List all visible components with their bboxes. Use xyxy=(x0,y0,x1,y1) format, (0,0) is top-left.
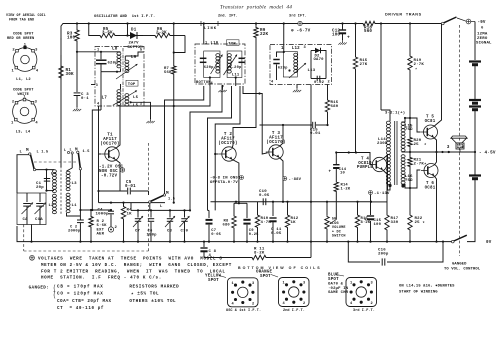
svg-text:1.5: 1.5 xyxy=(168,198,175,202)
svg-text:RED OR GREEN: RED OR GREEN xyxy=(7,37,34,41)
capacitor C12 xyxy=(332,22,350,40)
3rd IFT can box xyxy=(270,45,332,85)
svg-text:⊕ -6·7V: ⊕ -6·7V xyxy=(291,29,311,34)
gang capacitor C1A xyxy=(35,193,47,225)
wire can to T2 T3 feeds xyxy=(243,86,268,154)
svg-text:OTHERS ±10% TOL: OTHERS ±10% TOL xyxy=(129,299,176,304)
label L10 xyxy=(205,42,219,46)
svg-text:BOTTOM: BOTTOM xyxy=(128,46,144,50)
svg-text:1 L12: 1 L12 xyxy=(281,47,300,51)
svg-text:-·88V: -·88V xyxy=(289,178,302,182)
svg-text:2·7K★: 2·7K★ xyxy=(414,162,427,167)
wire C16 loop xyxy=(347,241,444,263)
svg-text:L1, L2: L1, L2 xyxy=(16,78,31,82)
coil base OSC 1st IFT xyxy=(228,278,259,307)
svg-text:OSCILLATOR AND 1st I.F.T.: OSCILLATOR AND 1st I.F.T. xyxy=(94,15,155,19)
coil L10 winding xyxy=(216,54,220,74)
svg-text:L13: L13 xyxy=(308,69,316,73)
dashed gang link switch upper xyxy=(148,143,150,193)
trimmer arrow L8 xyxy=(116,64,138,79)
text -6.7V xyxy=(291,29,311,34)
dashed gang link horizontal xyxy=(24,250,149,252)
wire AGC line xyxy=(260,124,328,126)
wire T1 base xyxy=(91,84,102,192)
svg-text:M: M xyxy=(75,148,78,153)
wire staircase c xyxy=(190,86,222,210)
label T3 AF117 xyxy=(266,131,285,145)
capacitor 620p osc xyxy=(95,51,118,72)
aerial coil L2 xyxy=(49,194,57,214)
label 2nd ift xyxy=(283,308,305,313)
wire battery bottom xyxy=(467,179,475,242)
trimmer C7 xyxy=(133,210,143,242)
svg-text:1.5: 1.5 xyxy=(83,150,90,154)
svg-text:3·2:1(+): 3·2:1(+) xyxy=(385,111,405,116)
switch on-off top xyxy=(442,17,457,25)
svg-text:C7: C7 xyxy=(135,230,141,234)
svg-text:230Ω: 230Ω xyxy=(377,141,388,146)
svg-text:75Ω: 75Ω xyxy=(405,178,413,183)
svg-text:OC81: OC81 xyxy=(425,120,436,124)
resistor R15 680 xyxy=(325,85,338,127)
trimmer arrow L13 xyxy=(288,63,315,78)
voltages note xyxy=(30,255,232,280)
svg-text:0-02: 0-02 xyxy=(314,81,325,85)
text -4.5V xyxy=(479,151,496,156)
wire staircase d xyxy=(208,86,232,210)
aerial coil view L3 L4 xyxy=(11,96,38,126)
label R2 ext aer xyxy=(97,220,108,237)
trimmer arrow L7 xyxy=(113,91,137,106)
svg-text:75Ω: 75Ω xyxy=(458,144,464,148)
wire T1 collector xyxy=(116,106,121,149)
label L12 xyxy=(281,47,300,51)
left tuned circuit rect 2nd IFT xyxy=(204,51,220,78)
capacitor 620p 3rd IFT xyxy=(273,51,288,80)
battery cell 2 xyxy=(469,100,481,103)
svg-text:DRIVER TRANS: DRIVER TRANS xyxy=(385,13,422,17)
svg-text:27K: 27K xyxy=(360,63,368,67)
label osc and 1st ift xyxy=(226,309,261,313)
diode D1 xyxy=(125,29,143,40)
wire T6 emitter xyxy=(434,176,437,243)
svg-text:COA= CTB= 20pf MAX: COA= CTB= 20pf MAX xyxy=(57,299,112,304)
switch on-off bottom xyxy=(452,235,492,245)
label 3rd IFT xyxy=(289,14,307,19)
svg-text:BOTTOM: BOTTOM xyxy=(196,81,211,85)
svg-text:2nd. IFT.: 2nd. IFT. xyxy=(218,14,238,19)
transistor T2 xyxy=(219,147,236,161)
wire top supply rail xyxy=(61,24,441,41)
label bottom 2nd IFT xyxy=(196,76,237,86)
svg-text:3: 3 xyxy=(371,282,373,286)
detector compartment xyxy=(311,51,326,79)
wire L3 tap xyxy=(67,213,81,216)
capacitor 0.02 xyxy=(311,76,326,85)
svg-text:100: 100 xyxy=(374,223,382,227)
capacitor C15 100 xyxy=(364,216,382,227)
svg-text:3: 3 xyxy=(303,282,305,286)
coil L9 xyxy=(125,52,144,73)
transistor T4 xyxy=(369,157,386,171)
wire C15 leg xyxy=(369,195,371,243)
resistor R16 xyxy=(355,202,371,243)
svg-text:CODE SPOT: CODE SPOT xyxy=(13,33,34,37)
test point T3 emitter xyxy=(283,177,302,183)
resistor R11 xyxy=(250,248,268,260)
dashed gang link to switch xyxy=(148,205,150,251)
capacitor 6-20p 2nd IFT xyxy=(229,58,245,70)
resistor R21 xyxy=(408,152,427,189)
svg-text:Transistor portable model 4: Transistor portable model 44 xyxy=(220,5,292,11)
svg-text:560: 560 xyxy=(364,30,372,34)
svg-text:3rd IFT.: 3rd IFT. xyxy=(289,14,307,19)
svg-text:L: L xyxy=(70,149,72,153)
svg-text:1000p: 1000p xyxy=(96,212,109,216)
svg-text:L5: L5 xyxy=(133,96,139,100)
svg-text:6-20p: 6-20p xyxy=(229,66,242,70)
svg-text:0·05: 0·05 xyxy=(211,233,221,237)
wire T3 emitter xyxy=(279,158,284,203)
svg-text:0-05: 0-05 xyxy=(271,232,282,236)
svg-text:22K: 22K xyxy=(260,32,269,37)
svg-text:56K: 56K xyxy=(164,71,172,75)
wire rail to transformer xyxy=(380,22,390,121)
coil base 3rd IFT xyxy=(346,278,377,307)
svg-text:L3: L3 xyxy=(72,182,78,186)
transistor T3 xyxy=(266,145,283,159)
capacitor C10 xyxy=(259,190,270,205)
wire gang to chassis xyxy=(30,225,32,243)
svg-text:NON OSC: NON OSC xyxy=(99,170,118,174)
svg-text:L2: L2 xyxy=(49,204,55,208)
ground under C3 xyxy=(73,106,81,111)
transistor T1 xyxy=(102,147,119,161)
wire emitter C5 row xyxy=(99,191,149,195)
capacitor C5 xyxy=(125,181,136,194)
coil L8 xyxy=(112,47,121,68)
coil L5 upper xyxy=(125,94,139,103)
wire left edge down xyxy=(60,38,62,167)
gang capacitor CA xyxy=(22,193,34,225)
resistor R22 xyxy=(408,188,426,243)
potentiometer wiper xyxy=(330,192,337,224)
svg-text:SIGNAL: SIGNAL xyxy=(476,42,492,46)
svg-text:SPOT: SPOT xyxy=(208,279,219,283)
label C2 xyxy=(68,226,81,234)
label T2 AF117 xyxy=(218,132,237,146)
svg-text:M: M xyxy=(26,148,29,153)
resistor R6 xyxy=(150,28,174,38)
svg-text:PURPLE: PURPLE xyxy=(357,166,373,170)
winding start dot secondary xyxy=(401,184,404,187)
resistor R18 in rail xyxy=(360,21,378,34)
svg-text:START OF WINDING: START OF WINDING xyxy=(399,291,438,295)
wire aerial input xyxy=(17,155,29,193)
svg-text:0V: 0V xyxy=(486,241,492,245)
test point 3rd IFT xyxy=(283,21,303,25)
svg-text:1·2K: 1·2K xyxy=(341,187,351,191)
wire staircase a xyxy=(165,86,204,194)
svg-text:BLUE: BLUE xyxy=(328,274,339,278)
svg-text:CO = 120pf MAX: CO = 120pf MAX xyxy=(57,292,104,297)
coil L12 winding xyxy=(283,52,297,78)
oscillator coil can box xyxy=(95,47,144,107)
volume potentiometer 5K xyxy=(325,201,329,243)
label orange spot xyxy=(256,271,278,280)
labels switch a xyxy=(20,148,49,155)
ganged capacitor list xyxy=(29,285,112,312)
aerial coil L4 xyxy=(51,170,57,193)
wire gang cap feed xyxy=(45,170,54,192)
svg-text:0-01: 0-01 xyxy=(310,132,321,136)
svg-text:ORANGE: ORANGE xyxy=(256,271,272,275)
wire trimmer bus xyxy=(131,203,191,212)
oscillator can pin numbers xyxy=(97,49,142,107)
wire T1 emitter xyxy=(116,160,121,192)
ground under 2nd IFT xyxy=(218,85,226,92)
label link xyxy=(201,21,218,31)
svg-text:L7: L7 xyxy=(102,96,108,101)
capacitor C9 xyxy=(243,203,259,242)
svg-text:L 1.5: L 1.5 xyxy=(37,151,49,155)
svg-text:200p: 200p xyxy=(378,253,389,257)
core oscillator xyxy=(122,48,124,105)
label T1 AF117 xyxy=(100,133,119,147)
svg-text:2·7K: 2·7K xyxy=(414,63,425,67)
trimmer arrow 2nd IFT a xyxy=(211,55,223,75)
wire osc can pins xyxy=(91,72,120,211)
svg-text:680: 680 xyxy=(223,223,231,227)
wire detector output xyxy=(310,85,372,243)
svg-text:680: 680 xyxy=(331,105,339,109)
wire C2 leg xyxy=(77,216,84,243)
wire secondary bottom to T6 base xyxy=(402,170,421,188)
wire C5 left leg xyxy=(98,191,100,203)
svg-text:0-05: 0-05 xyxy=(259,194,270,198)
svg-text:SPOT: SPOT xyxy=(328,278,339,282)
svg-text:M: M xyxy=(166,191,169,196)
svg-text:1K: 1K xyxy=(127,213,133,217)
wire battery mid b xyxy=(474,110,476,175)
svg-text:-0·8 IN ONSTA: -0·8 IN ONSTA xyxy=(210,177,243,181)
trimmer C70 xyxy=(180,210,190,242)
label L1 L2 xyxy=(16,78,31,82)
svg-text:1K: 1K xyxy=(291,221,297,225)
label blue spot xyxy=(328,274,349,296)
driver transformer core xyxy=(395,121,397,185)
resistor R15 27K xyxy=(353,22,367,152)
label 2.47V bottom xyxy=(128,42,144,50)
svg-text:TOP: TOP xyxy=(128,83,136,87)
speaker xyxy=(451,136,467,152)
socket ext aerial xyxy=(108,211,118,232)
label terminal 3 xyxy=(447,144,450,153)
svg-text:FROM TAG END: FROM TAG END xyxy=(9,18,34,22)
capacitor 620p 2nd IFT xyxy=(200,58,214,70)
svg-text:10: 10 xyxy=(340,172,345,176)
wire oscillator tap xyxy=(76,51,96,53)
resistor R7 xyxy=(164,22,176,107)
wire 2nd IFT pin1 to rail xyxy=(203,22,205,44)
text view of aerial coil xyxy=(6,13,46,22)
svg-text:OFFSTA-0·7V: OFFSTA-0·7V xyxy=(210,181,238,185)
driver transformer secondary L15 L16 xyxy=(401,122,413,184)
svg-text:CB = 170pf MAX: CB = 170pf MAX xyxy=(57,285,104,290)
tuning gang box xyxy=(17,193,46,225)
svg-text:HOME STATION. I.F FREQ - 47: HOME STATION. I.F FREQ - 470 K C/s. xyxy=(41,276,162,281)
text T1 voltages xyxy=(99,166,125,179)
capacitor C13 xyxy=(310,122,321,136)
svg-text:75Ω: 75Ω xyxy=(405,127,413,132)
capacitor C1 xyxy=(36,177,50,190)
dashed gang link vertical xyxy=(23,225,25,252)
transistor T5 xyxy=(421,125,438,139)
svg-text:2: 2 xyxy=(303,302,305,306)
label L3 L4 xyxy=(16,131,31,135)
label pins 3rd IFT xyxy=(271,46,330,85)
right tuned circuit rect 2nd IFT xyxy=(227,51,242,78)
coil L5 lower xyxy=(125,101,139,108)
svg-text:L: L xyxy=(64,149,66,153)
battery cell 1 xyxy=(469,62,481,65)
svg-text:GANGED:: GANGED: xyxy=(29,286,50,291)
ground under 3rd IFT xyxy=(293,85,301,93)
wire lower junction bus xyxy=(99,202,175,204)
svg-text:CT = 40-110 pf: CT = 40-110 pf xyxy=(57,306,104,311)
svg-text:ZERO: ZERO xyxy=(477,37,488,41)
wire staircase e xyxy=(214,86,240,210)
battery cell 3 xyxy=(469,176,481,179)
svg-text:ON L14,15 &16, ●DENOTES: ON L14,15 &16, ●DENOTES xyxy=(399,285,455,289)
svg-text:3-5K: 3-5K xyxy=(102,32,113,36)
ground under oscillator section xyxy=(131,102,155,123)
svg-text:3rd I.F.T.: 3rd I.F.T. xyxy=(353,308,375,313)
text bottom view of coils xyxy=(238,266,322,270)
battery cell 2b xyxy=(469,107,481,110)
label oscillator and 1st IFT xyxy=(94,15,155,19)
coil L11 winding xyxy=(227,54,240,78)
svg-text:- 4·5V: - 4·5V xyxy=(479,151,496,156)
driver transformer primary L14 xyxy=(377,121,390,184)
label top boxed xyxy=(126,80,138,87)
svg-text:8·2K: 8·2K xyxy=(361,221,371,225)
wire T5 collector to switch xyxy=(434,24,442,127)
label T6 OC81 xyxy=(425,182,436,190)
text ganged to vol control xyxy=(444,263,481,272)
svg-text:100: 100 xyxy=(332,34,340,38)
wire T4 base line xyxy=(335,151,372,164)
wire to aerial coil xyxy=(33,168,54,170)
svg-text:L4: L4 xyxy=(51,173,57,177)
svg-text:2nd I.F.T.: 2nd I.F.T. xyxy=(283,308,305,313)
svg-text:25 ★: 25 ★ xyxy=(415,220,426,225)
wire secondary centre tap xyxy=(402,151,412,153)
trimmer arrow 2nd IFT b xyxy=(224,55,238,76)
resistor R1 xyxy=(59,55,74,80)
svg-text:OSC & 1st I.F.T.: OSC & 1st I.F.T. xyxy=(226,309,261,313)
svg-text:(OC170): (OC170) xyxy=(100,141,119,146)
dashed gang line to volume xyxy=(459,25,461,256)
wire junction rail to D1 xyxy=(126,22,128,36)
svg-text:620p: 620p xyxy=(278,66,288,70)
wire battery top xyxy=(474,22,476,61)
svg-text:-9V: -9V xyxy=(478,21,486,25)
svg-text:3: 3 xyxy=(96,84,98,88)
svg-text:C70: C70 xyxy=(181,230,189,234)
svg-text:0·1: 0·1 xyxy=(81,97,89,101)
svg-text:★ ±5% TOL: ★ ±5% TOL xyxy=(131,292,159,297)
resistor tolerance note xyxy=(129,285,179,304)
svg-text:3: 3 xyxy=(447,144,450,150)
label TOP boxed 2nd IFT xyxy=(227,40,240,47)
wire mid rail -4.5V xyxy=(410,151,476,153)
transistor T6 xyxy=(421,164,438,178)
wire R9 to T2 collector xyxy=(232,45,256,148)
svg-text:L10: L10 xyxy=(211,42,219,46)
switch wave change a xyxy=(29,153,31,155)
contact L pair xyxy=(64,149,73,172)
label C4 xyxy=(96,209,109,217)
label T5 OC81 xyxy=(425,116,436,124)
svg-text:L1: L1 xyxy=(72,204,78,208)
svg-text:2: 2 xyxy=(371,302,373,306)
capacitor C3 xyxy=(74,52,90,107)
wire T2 emitter xyxy=(232,160,239,204)
resistor R10 xyxy=(255,202,271,243)
svg-text:3: 3 xyxy=(252,282,254,286)
resistor R2 xyxy=(89,210,93,243)
resistor R20 xyxy=(408,117,427,152)
svg-text:8·2K: 8·2K xyxy=(254,252,265,256)
wire staircase b xyxy=(120,86,210,203)
coil L7 xyxy=(102,90,121,106)
resistor R12 xyxy=(285,201,298,243)
wire T4 emitter xyxy=(371,170,387,212)
label driver trans xyxy=(385,13,422,17)
svg-text:620p: 620p xyxy=(204,66,214,70)
wire bottom rail xyxy=(17,226,452,242)
svg-text:+: + xyxy=(329,171,332,175)
capacitor C11 xyxy=(269,201,281,243)
wire emitter bus xyxy=(211,201,312,203)
resistor R4 xyxy=(121,203,132,243)
svg-text:2: 2 xyxy=(328,81,330,85)
label yellow spot xyxy=(205,275,226,284)
svg-text:YELLOW: YELLOW xyxy=(205,275,221,279)
capacitor C16 xyxy=(378,249,389,266)
svg-text:RESISTORS MARKED: RESISTORS MARKED xyxy=(129,285,179,290)
svg-text:FOR T 2 EMITTER READING, WHE: FOR T 2 EMITTER READING, WHEN IT WAS TUN… xyxy=(41,269,226,274)
svg-text:L3, L4: L3, L4 xyxy=(16,131,31,135)
capacitor C8 4uF xyxy=(200,241,216,258)
capacitor C6 xyxy=(147,210,158,241)
label turns ratio xyxy=(385,111,405,116)
capacitor C7 if xyxy=(206,210,222,242)
svg-text:2: 2 xyxy=(252,302,254,306)
svg-text:-1·13V: -1·13V xyxy=(374,192,390,196)
label 2nd IFT xyxy=(218,14,238,19)
svg-text:SPOT: SPOT xyxy=(260,275,271,279)
svg-text:CODE SPOT: CODE SPOT xyxy=(13,89,34,93)
svg-text:METER ON 2·5V & 10V D.C. RANG: METER ON 2·5V & 10V D.C. RANGE; WITH GAN… xyxy=(41,263,232,268)
meter test point xyxy=(457,18,475,24)
svg-text:100: 100 xyxy=(67,36,76,41)
svg-text:+: + xyxy=(347,36,350,41)
svg-text:(OC170): (OC170) xyxy=(218,141,237,146)
svg-text:VOLTAGES WERE TAKEN AT THES: VOLTAGES WERE TAKEN AT THESE POINTS WITH… xyxy=(38,257,223,262)
aerial coil L1 xyxy=(66,193,77,213)
